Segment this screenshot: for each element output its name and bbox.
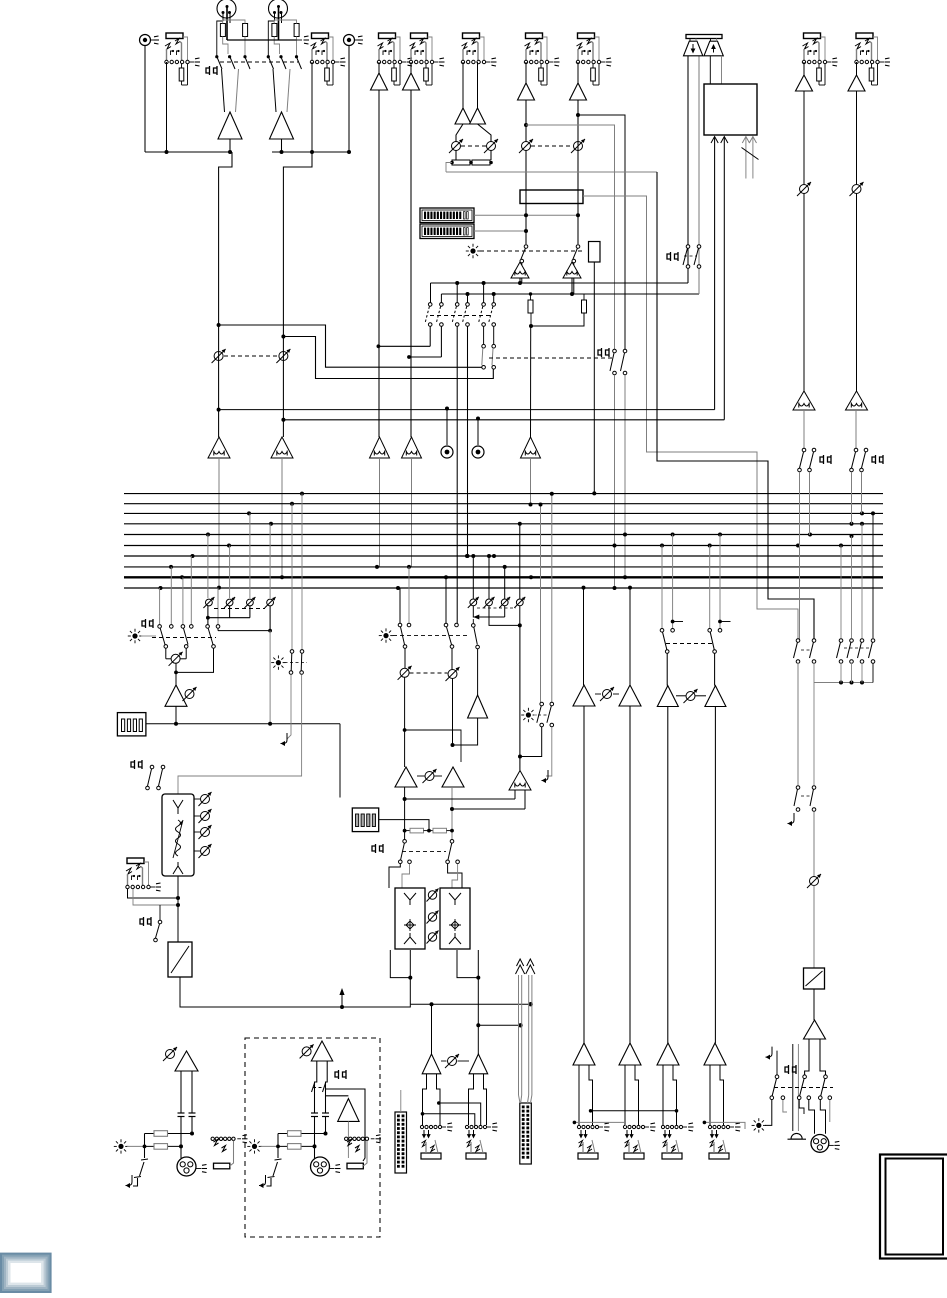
node tape send 5 bbox=[524, 123, 528, 127]
op-amp U-ch1 fader bbox=[370, 437, 390, 458]
block 2TK record bbox=[704, 84, 757, 135]
wire CD-L tape route bbox=[219, 325, 482, 367]
wire solo grey R bbox=[551, 494, 553, 702]
wire bbox=[856, 194, 858, 392]
wire bbox=[477, 978, 479, 1054]
wire bbox=[229, 606, 231, 618]
switch phones cut A bbox=[796, 786, 800, 790]
wire bbox=[530, 294, 532, 300]
wire bbox=[180, 977, 410, 1007]
XLR-1 pin leads bbox=[217, 7, 230, 57]
LED main R bbox=[247, 1139, 261, 1153]
switch solo master A bbox=[540, 702, 544, 706]
potentiometer aux return 2 bbox=[484, 554, 495, 608]
contact bbox=[807, 1096, 811, 1100]
graphic EQ block bbox=[162, 794, 194, 876]
capacitor C-main-R1 bbox=[311, 1112, 318, 1114]
switch phones L bbox=[686, 245, 690, 249]
wire bbox=[666, 654, 668, 686]
capacitor C-main-R2 bbox=[322, 1112, 329, 1114]
wire mon sum down bbox=[530, 313, 532, 326]
potentiometer main L trim bbox=[163, 1047, 177, 1061]
op-amp U-out grp4 bbox=[704, 1043, 726, 1065]
dashed gang mon sel bbox=[844, 647, 870, 649]
connector jack GRP-OUT 4 bbox=[708, 1123, 740, 1159]
phones icon control room bbox=[667, 252, 678, 261]
wire bbox=[813, 989, 815, 1020]
switch monL bbox=[796, 639, 800, 643]
dashed gang CD bbox=[224, 355, 278, 357]
wire bbox=[803, 410, 805, 448]
phones icon phones-out bbox=[140, 917, 151, 926]
wire bbox=[525, 151, 527, 245]
wire grp link2 bbox=[574, 1122, 625, 1126]
wire bus taps to CR matrix bbox=[160, 513, 271, 624]
resistor R4 sum bbox=[472, 160, 490, 165]
op-amp U-CD-R fader bbox=[271, 437, 293, 458]
wire bbox=[813, 886, 815, 969]
switch solo 1 bbox=[290, 650, 294, 654]
dashed gang grp bbox=[666, 643, 712, 645]
slash 2 wires bbox=[742, 148, 759, 160]
insert block bbox=[589, 242, 601, 263]
wire bbox=[840, 663, 842, 683]
wire bbox=[595, 693, 601, 695]
wire bbox=[144, 1134, 146, 1159]
wire fader outs to bus bbox=[217, 458, 533, 590]
dashed gang line mic1-mic2 bbox=[220, 61, 298, 63]
connector jack MON-IN 1 bbox=[802, 33, 837, 85]
wire CR to sub bbox=[339, 724, 341, 798]
LED solo master bbox=[521, 708, 535, 722]
switch solo master B bbox=[550, 702, 554, 706]
grp neck bbox=[663, 1065, 677, 1125]
wire bbox=[404, 649, 406, 669]
potentiometer main balance bbox=[445, 1054, 459, 1068]
switch aux return bbox=[472, 624, 476, 628]
op-amp U-main L bbox=[175, 1051, 198, 1071]
wire bbox=[405, 730, 461, 762]
switch aux phones R bbox=[623, 349, 627, 353]
dashed gang CR source bbox=[214, 608, 265, 610]
dashed bbox=[285, 662, 308, 664]
wire bbox=[577, 62, 579, 83]
switch main L lift bbox=[141, 1159, 148, 1160]
wire alt route bbox=[446, 171, 657, 173]
op-amp U-CD-L fader bbox=[208, 437, 230, 458]
wire insert down bbox=[593, 262, 595, 493]
wire meter L bbox=[474, 214, 578, 216]
TS L bar bbox=[214, 1163, 230, 1169]
wire mon bus bbox=[814, 682, 873, 684]
wire bbox=[776, 1051, 778, 1075]
node bbox=[403, 728, 407, 732]
meter block CR bbox=[117, 713, 145, 736]
resistor R monitor R bbox=[582, 300, 587, 313]
switch mute 6 bbox=[576, 245, 580, 249]
wire bbox=[803, 91, 805, 184]
wire bbox=[399, 588, 401, 623]
wire bbox=[856, 91, 858, 184]
potentiometer aux return 4 bbox=[514, 522, 525, 608]
switch out 1 bbox=[775, 1075, 779, 1079]
node bbox=[174, 671, 178, 675]
main R neck bbox=[315, 1061, 328, 1113]
phones icon sub bbox=[372, 844, 383, 853]
switch monsel 1 bbox=[839, 639, 843, 643]
potentiometer xfade 3 bbox=[427, 931, 439, 944]
node bbox=[476, 976, 480, 980]
meter feed bar L bbox=[516, 959, 525, 1103]
potentiometer grp 1-2 level bbox=[600, 687, 614, 701]
switch mon2 a bbox=[854, 448, 858, 452]
wire solo out R bbox=[524, 790, 526, 809]
connector jack GRP-OUT 3 bbox=[661, 1123, 693, 1159]
grp neck bbox=[579, 1065, 593, 1125]
wire bbox=[400, 1090, 402, 1112]
crossfade block A bbox=[395, 888, 425, 949]
wire tape out L bbox=[446, 409, 448, 446]
wire bbox=[165, 648, 167, 659]
wire bbox=[287, 675, 291, 740]
op-amp U-aux pre bbox=[468, 695, 488, 718]
dashed bbox=[313, 1087, 324, 1089]
TS R arms bbox=[347, 1140, 352, 1146]
switch grp4 b bbox=[718, 629, 722, 633]
wire aux pair A bbox=[473, 606, 504, 617]
wire bbox=[803, 62, 805, 75]
resistor R-out L2 bbox=[154, 1144, 168, 1150]
wire solo out L bbox=[514, 790, 516, 799]
dashed gang out bbox=[774, 1087, 833, 1089]
equalizer block EQ5/6 bbox=[520, 190, 583, 204]
connector XLR MIC-2 bbox=[269, 0, 288, 18]
contact bbox=[713, 650, 717, 654]
connector jack LINE-IN ch2 bbox=[409, 33, 444, 85]
dashed option box bbox=[245, 1038, 380, 1237]
wire bbox=[813, 812, 815, 877]
switch grp4 a bbox=[708, 629, 712, 633]
LED aux master bbox=[379, 628, 393, 642]
wire phantom loop 2 bbox=[274, 20, 296, 24]
wire bbox=[389, 864, 400, 888]
potentiometer GEQ band 1 bbox=[194, 798, 200, 800]
TS L arms bbox=[214, 1140, 219, 1146]
wire bbox=[478, 124, 492, 142]
wire meter R bbox=[474, 230, 526, 232]
switch CR phones B bbox=[161, 765, 165, 769]
preamp U-mic2 input taper bbox=[273, 69, 290, 112]
op-amp U6 input buffer bbox=[570, 83, 587, 100]
wire bbox=[175, 663, 177, 685]
connector jack LINE-IN ch1 bbox=[377, 33, 412, 85]
wire solo tap L bbox=[405, 798, 515, 800]
wire sum R out bbox=[571, 278, 573, 294]
node tape send 6 bbox=[576, 113, 580, 117]
potentiometer CR source 3 bbox=[244, 597, 255, 608]
wire bbox=[803, 194, 805, 392]
switch main R inline bbox=[312, 1083, 315, 1092]
wire solo feed down bbox=[519, 625, 521, 770]
bus lines group bbox=[124, 494, 883, 588]
wire bbox=[531, 313, 584, 326]
op-amp U-grp1 bbox=[573, 685, 595, 706]
potentiometer CR source 2 bbox=[224, 597, 235, 608]
switch grp3 b bbox=[671, 629, 675, 633]
switch CR sel 3 bbox=[181, 625, 185, 629]
switch out 3 bbox=[824, 1075, 828, 1079]
resistor R-sub R bbox=[433, 828, 447, 833]
LED meter L bbox=[420, 208, 474, 223]
switch aux pair 1 bbox=[425, 303, 443, 327]
op-amp U-sub L bbox=[395, 767, 417, 787]
return hook solo master bbox=[542, 770, 549, 781]
wire bbox=[813, 663, 815, 683]
switch matrix column feeds bbox=[431, 283, 494, 303]
switch aux master R sel bbox=[444, 623, 448, 627]
speaker icon bbox=[791, 1133, 802, 1139]
wire bbox=[348, 46, 350, 153]
wire bbox=[851, 472, 853, 524]
switch out 2 bbox=[803, 1075, 807, 1079]
wire bbox=[472, 619, 474, 623]
wire aux pair B bbox=[489, 606, 520, 626]
wire bbox=[229, 139, 231, 152]
contact bbox=[665, 650, 669, 654]
potentiometer LEVEL 3/4 L bbox=[449, 139, 463, 153]
main out L neck bbox=[423, 1074, 441, 1125]
wire phones master bbox=[797, 663, 799, 785]
wire bbox=[452, 864, 458, 888]
wire bbox=[861, 472, 863, 513]
resistor R-mic2a bbox=[272, 24, 277, 37]
wire bbox=[402, 864, 410, 888]
mic1 pad switch contacts bbox=[215, 55, 250, 69]
wire sum L out bbox=[519, 278, 521, 283]
logo badge bbox=[0, 1253, 52, 1293]
wire solo risers bbox=[291, 504, 293, 650]
wire meter feed bbox=[379, 820, 429, 831]
node bbox=[408, 976, 412, 980]
wire phones riser R bbox=[698, 56, 700, 294]
potentiometer aux send A bbox=[398, 666, 412, 680]
switch monsel 4 bbox=[871, 639, 875, 643]
switch sub assign R bbox=[450, 840, 454, 844]
op-amp U8 summing R bbox=[563, 262, 581, 278]
switch mon1 a bbox=[802, 448, 806, 452]
potentiometer GEQ band 3 bbox=[194, 831, 200, 833]
wire bbox=[820, 1100, 825, 1134]
wire bbox=[274, 37, 279, 55]
wire bbox=[281, 139, 283, 152]
wire bbox=[267, 1178, 272, 1186]
LED main L bbox=[114, 1139, 128, 1153]
op-amp U-ch1 input buffer bbox=[371, 73, 388, 90]
wire bbox=[249, 606, 251, 618]
wire bbox=[133, 1178, 138, 1186]
switch aux master L sel bbox=[398, 623, 402, 627]
grp neck bbox=[625, 1065, 639, 1125]
connector RCA 2TK-IN L bbox=[140, 35, 160, 46]
connector jack MON-IN 2 bbox=[855, 33, 890, 85]
wire bbox=[296, 37, 298, 57]
contact bbox=[828, 1096, 832, 1100]
op-amp U-ch5 fader bbox=[521, 437, 541, 458]
dashed gang aux send bbox=[410, 672, 448, 674]
wire bbox=[455, 151, 457, 161]
op-amp U-out grp2 bbox=[619, 1043, 641, 1065]
bus junction nodes bbox=[159, 492, 876, 590]
op-amp U-mic2 preamp bbox=[270, 112, 294, 139]
op-amp U-grp4 bbox=[705, 686, 726, 707]
wire solo tap R bbox=[452, 808, 525, 810]
potentiometer LEVEL 3/4 R bbox=[484, 139, 498, 153]
op-amp U-grp3 bbox=[657, 686, 678, 707]
wire bbox=[175, 706, 177, 724]
switch grp3 a bbox=[660, 629, 664, 633]
wire bbox=[144, 46, 146, 153]
TS R bar bbox=[347, 1163, 363, 1169]
phones icon main R bbox=[335, 1070, 346, 1079]
potentiometer grp 3-4 level bbox=[684, 689, 698, 703]
contact bbox=[781, 1096, 785, 1100]
potentiometer phones level bbox=[807, 874, 821, 888]
connector jack GRP-OUT 2 bbox=[623, 1123, 655, 1159]
wire bbox=[452, 679, 454, 746]
potentiometer LEVEL 6 bbox=[571, 139, 585, 153]
wire bbox=[145, 151, 232, 153]
op-amp U-sub R bbox=[442, 767, 464, 787]
switch monsel 3 bbox=[860, 639, 864, 643]
wire bbox=[128, 889, 179, 898]
main out amp L bbox=[422, 1054, 441, 1074]
wire bbox=[445, 577, 447, 623]
wire bbox=[456, 124, 463, 142]
potentiometer aux return 3 bbox=[499, 565, 510, 608]
wire bbox=[765, 1100, 772, 1126]
wire bbox=[185, 648, 187, 659]
wire bbox=[583, 294, 585, 300]
wire CR source merge bbox=[208, 617, 250, 619]
wire bbox=[347, 1121, 349, 1158]
op-amp U-solo master bbox=[509, 771, 531, 791]
op-amp U-mic1 preamp bbox=[218, 112, 242, 139]
wire sum bus L bbox=[431, 282, 689, 284]
wires matrix column feeds down bbox=[430, 326, 469, 623]
wire jog CD-L to fader bbox=[219, 152, 232, 437]
op-amp U3 buffer L bbox=[455, 108, 471, 124]
wire bbox=[477, 649, 479, 695]
wire jog CD-R to fader bbox=[283, 152, 312, 437]
wire bbox=[624, 375, 626, 577]
arrow feed to amp bbox=[341, 992, 343, 1007]
phones icon mon2 bbox=[872, 455, 883, 464]
wire bbox=[851, 663, 853, 683]
wire bbox=[409, 978, 411, 1005]
connector XLR phones/mono out bbox=[811, 1135, 840, 1153]
dashed gang aux2 bbox=[489, 357, 612, 359]
wire tape out R bbox=[477, 419, 479, 446]
wire bbox=[520, 727, 542, 757]
connector jack GRP-OUT 1 bbox=[577, 1123, 609, 1159]
wire grp4 stub bbox=[709, 546, 711, 629]
wire route ch5 to aux switch bbox=[526, 125, 615, 351]
wire bbox=[178, 675, 302, 795]
grp neck bbox=[710, 1065, 724, 1125]
dashed gang aux returns bbox=[477, 607, 516, 609]
connector jack CTRL-OUT R bbox=[465, 1123, 497, 1159]
return hook main L bbox=[126, 1175, 133, 1186]
wire 2TK R feed bbox=[723, 137, 725, 420]
wire out L b bbox=[145, 1145, 182, 1147]
main out amp R bbox=[469, 1054, 488, 1074]
switch main R lift bbox=[275, 1159, 282, 1160]
dashed gang 3/4 bbox=[461, 145, 486, 147]
dashed mute gang bbox=[480, 250, 584, 252]
wire bbox=[856, 62, 858, 75]
wire sub L down bbox=[404, 787, 406, 839]
wire bbox=[127, 1145, 145, 1147]
wire bbox=[799, 472, 801, 640]
LED CR active bbox=[128, 629, 142, 643]
wire bbox=[378, 90, 380, 437]
wire main L spine bbox=[410, 1003, 530, 1005]
wire bbox=[272, 151, 350, 153]
wire main link A bbox=[423, 1114, 475, 1126]
wire bbox=[614, 375, 616, 588]
wire bbox=[176, 648, 214, 672]
dashed gang sub assign bbox=[402, 851, 446, 853]
jack TS main R bbox=[345, 1137, 375, 1140]
op-amp U4 buffer R bbox=[470, 108, 486, 124]
op-amp U-mon1 fader bbox=[793, 391, 815, 410]
op-amp U-CR amp bbox=[165, 685, 187, 706]
wire bbox=[783, 1100, 787, 1112]
connector RCA 2TK-IN R bbox=[344, 35, 364, 46]
potentiometer sub balance bbox=[423, 769, 437, 783]
wire group 1 feed bbox=[583, 588, 585, 685]
return hook out bbox=[766, 1047, 773, 1058]
wire bbox=[207, 606, 209, 625]
connector jack CD-IN L bbox=[165, 33, 200, 85]
wire sub R down bbox=[451, 787, 453, 839]
wire bbox=[410, 90, 412, 437]
op-amp U-phones out bbox=[804, 1020, 826, 1039]
phones icon out bbox=[785, 1065, 796, 1074]
switch sub assign L bbox=[403, 840, 407, 844]
op-amp U-grp2 bbox=[619, 685, 641, 706]
resistor R monitor L bbox=[528, 300, 533, 313]
wire bbox=[261, 1145, 279, 1147]
wire main R spine bbox=[478, 1024, 520, 1026]
return hook main R bbox=[259, 1175, 266, 1186]
potentiometer CR trim bbox=[183, 687, 197, 701]
meter feed bar R bbox=[526, 959, 535, 1103]
LED power indicator bbox=[466, 244, 480, 258]
connector RCA TAPE-OUT R bbox=[472, 446, 484, 458]
wire bbox=[714, 654, 716, 686]
resistor R3 sum bbox=[452, 160, 470, 165]
op-amp U7 summing L bbox=[511, 262, 529, 278]
wire aux stubs bbox=[745, 137, 747, 179]
wire bbox=[872, 663, 874, 683]
switch solo 2 bbox=[300, 650, 304, 654]
wire 2TK L feed bbox=[714, 137, 716, 410]
dashed gang phones bbox=[684, 255, 697, 257]
wire jack feed R bbox=[326, 1089, 366, 1161]
resistor R-mic1b bbox=[243, 24, 248, 37]
jack TS main L bbox=[211, 1137, 241, 1140]
